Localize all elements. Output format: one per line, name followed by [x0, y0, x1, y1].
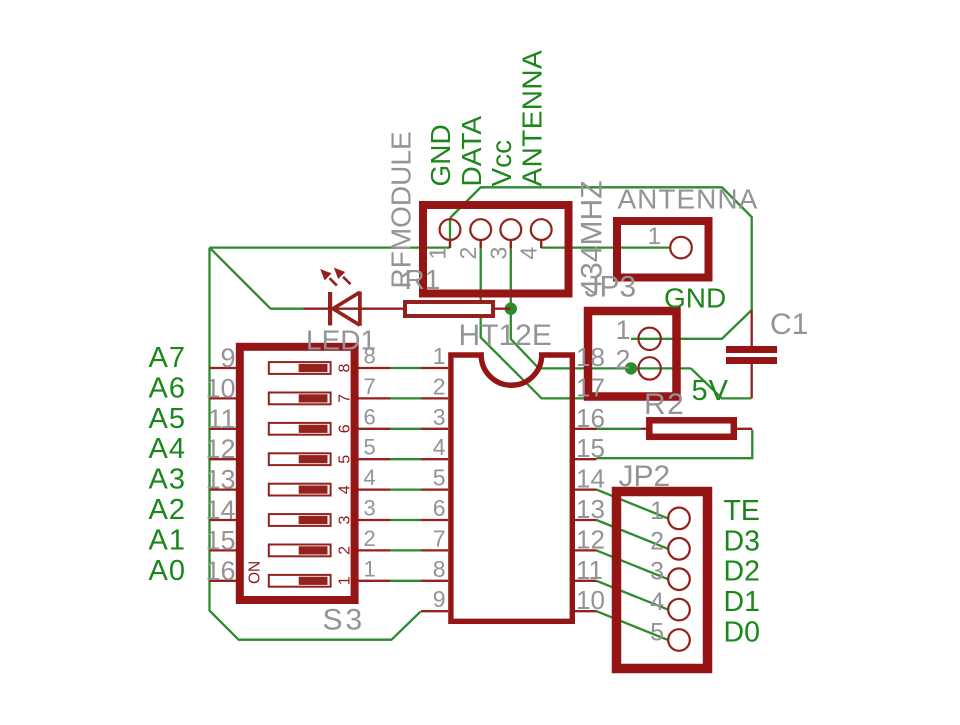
- JP2 pin 5 circle: [668, 629, 690, 651]
- S3 left pin stub row 14: [210, 519, 237, 521]
- svg-text:15: 15: [205, 525, 235, 555]
- S3 right pin stub row 5: [358, 458, 390, 460]
- svg-text:10: 10: [205, 373, 235, 403]
- svg-text:10: 10: [576, 585, 605, 615]
- svg-text:D1: D1: [724, 586, 760, 618]
- wire IC pin14 to JP2 pin1: [597, 490, 669, 519]
- JP3 pin 2 circle: [638, 357, 660, 379]
- svg-text:1: 1: [337, 576, 354, 585]
- S3 left pin stub row 10: [210, 397, 237, 399]
- RFMODULE pin 3 circle: [500, 219, 521, 240]
- wire IC pin15 to R2 right: [597, 430, 753, 458]
- svg-text:HT12E: HT12E: [459, 319, 552, 352]
- S3 slot 2: [269, 545, 331, 557]
- svg-text:13: 13: [205, 465, 235, 495]
- IC right pin stub 16: [573, 428, 597, 430]
- wire 5V jog to C1 bottom: [691, 368, 752, 398]
- ANTENNA pin 1 circle: [670, 237, 692, 259]
- IC right pin stub 15: [573, 458, 597, 460]
- svg-text:1: 1: [433, 343, 446, 369]
- svg-text:1: 1: [364, 556, 376, 581]
- svg-text:9: 9: [220, 343, 235, 373]
- svg-text:8: 8: [364, 344, 376, 369]
- svg-text:A2: A2: [149, 494, 186, 526]
- wire Vcc: RFMODULE pin3 to JP3 pin2: [511, 242, 691, 368]
- svg-text:12: 12: [205, 434, 235, 464]
- IC left pin stub 8: [421, 580, 448, 582]
- svg-text:3: 3: [650, 558, 664, 586]
- RFMODULE pin 3 stub: [510, 241, 512, 249]
- svg-text:5: 5: [433, 465, 446, 491]
- svg-text:1: 1: [650, 497, 664, 525]
- svg-text:2: 2: [433, 373, 446, 399]
- R1 right lead: [493, 308, 511, 310]
- svg-text:16: 16: [576, 403, 605, 433]
- connector ANTENNA box: [617, 221, 709, 278]
- wire GND top run to C1/JP3: [450, 187, 752, 310]
- RFMODULE pin 1 circle: [440, 219, 461, 240]
- svg-text:15: 15: [576, 433, 605, 463]
- wire GND bus left outline: [210, 248, 421, 640]
- RFMODULE pin 2 stub: [480, 241, 482, 249]
- svg-text:2: 2: [364, 526, 376, 551]
- wire S3 pin 8 to IC pin 1: [390, 367, 422, 369]
- RFMODULE pin 1 stub: [449, 241, 451, 249]
- IC left pin stub 6: [421, 519, 448, 521]
- wire DATA: RFMODULE pin2 to IC pin17: [481, 242, 597, 398]
- svg-text:17: 17: [576, 372, 605, 402]
- svg-text:ON: ON: [247, 561, 264, 584]
- IC left pin stub 9: [421, 610, 448, 612]
- S3 slot 4: [269, 484, 331, 496]
- svg-text:TE: TE: [724, 495, 760, 527]
- LED1 arrow 1: [330, 278, 337, 285]
- svg-text:A5: A5: [149, 403, 186, 435]
- S3 slot 7: [269, 393, 331, 405]
- svg-text:4: 4: [337, 485, 354, 494]
- svg-text:4: 4: [364, 465, 376, 490]
- IC right pin stub 14: [573, 488, 597, 490]
- svg-text:3: 3: [364, 496, 376, 521]
- svg-text:JP2: JP2: [619, 460, 671, 493]
- LED1 arrow 2: [343, 277, 350, 284]
- LED1 triangle: [333, 292, 360, 326]
- IC left pin stub 1: [421, 367, 448, 369]
- switch S3 body: [240, 347, 355, 600]
- connector JP2 box: [617, 492, 708, 669]
- R2 left lead: [641, 428, 649, 430]
- svg-text:14: 14: [205, 495, 235, 525]
- wire IC pin11 to JP2 pin4: [597, 581, 669, 610]
- svg-text:GND: GND: [664, 283, 726, 314]
- svg-text:JP3: JP3: [585, 271, 637, 304]
- svg-text:4: 4: [650, 588, 664, 616]
- svg-text:6: 6: [364, 404, 376, 429]
- S3 right pin stub row 4: [358, 488, 390, 490]
- IC right pin stub 11: [573, 580, 597, 582]
- S3 right pin stub row 3: [358, 519, 390, 521]
- IC left pin stub 4: [421, 458, 448, 460]
- svg-text:S3: S3: [323, 604, 366, 637]
- svg-text:R1: R1: [405, 264, 441, 295]
- svg-text:Vcc: Vcc: [486, 140, 517, 187]
- RFMODULE pin 4 circle: [531, 219, 552, 240]
- wire S3 pin 7 to IC pin 2: [390, 397, 422, 399]
- svg-text:D0: D0: [724, 617, 760, 649]
- svg-text:DATA: DATA: [456, 116, 487, 187]
- op IC HT12E outline: [451, 355, 572, 621]
- svg-text:2: 2: [650, 527, 664, 555]
- svg-text:3: 3: [337, 516, 354, 525]
- S3 left pin stub row 16: [210, 580, 237, 582]
- JP2 pin 4 circle: [668, 599, 690, 621]
- resistor R1 body: [405, 302, 493, 316]
- IC right pin stub 13: [573, 519, 597, 521]
- svg-text:2: 2: [455, 247, 481, 260]
- svg-text:13: 13: [576, 494, 605, 524]
- svg-text:A7: A7: [149, 342, 186, 374]
- svg-text:3: 3: [485, 247, 511, 260]
- S3 left pin stub row 13: [210, 488, 237, 490]
- S3 right pin stub row 2: [358, 549, 390, 551]
- svg-text:A4: A4: [149, 433, 186, 465]
- LED1 cathode bar: [328, 292, 332, 325]
- wire JP3 pin1 to GND node: [631, 310, 752, 339]
- wire IC pin12 to JP2 pin3: [597, 550, 669, 579]
- IC left pin stub 7: [421, 549, 448, 551]
- svg-text:5: 5: [337, 455, 354, 464]
- svg-text:R2: R2: [644, 388, 685, 421]
- svg-text:A0: A0: [149, 555, 186, 587]
- IC left pin stub 5: [421, 488, 448, 490]
- RFMODULE pin 2 circle: [470, 219, 491, 240]
- junction dot Vcc/R1: [505, 303, 517, 315]
- svg-text:4: 4: [516, 247, 542, 260]
- S3 right pin stub row 7: [358, 397, 390, 399]
- S3 right pin stub row 1: [358, 580, 390, 582]
- svg-text:14: 14: [576, 464, 605, 494]
- svg-text:11: 11: [576, 555, 603, 585]
- R1 left lead through LED anode: [304, 308, 406, 310]
- svg-text:7: 7: [337, 394, 354, 403]
- wire S3 pin 6 to IC pin 3: [390, 428, 422, 430]
- IC left pin stub 2: [421, 397, 448, 399]
- svg-text:A3: A3: [149, 464, 186, 496]
- IC right pin stub 12: [573, 549, 597, 551]
- svg-text:A6: A6: [149, 372, 186, 404]
- svg-text:2: 2: [615, 345, 630, 375]
- wire RFMODULE pin1 stub: [449, 218, 451, 248]
- S3 left pin stub row 12: [210, 458, 237, 460]
- S3 slot 6: [269, 423, 331, 435]
- svg-text:16: 16: [205, 556, 235, 586]
- wire GND horizontal to RFMODULE pin1: [210, 246, 451, 248]
- svg-text:18: 18: [576, 342, 605, 372]
- svg-text:2: 2: [337, 546, 354, 555]
- S3 slot 3: [269, 514, 331, 526]
- R2 right lead: [734, 428, 752, 430]
- S3 slot 8: [269, 362, 331, 374]
- svg-text:1: 1: [425, 247, 451, 260]
- svg-text:ANTENNA: ANTENNA: [618, 184, 759, 215]
- S3 left pin stub row 11: [210, 428, 237, 430]
- connector JP3 box: [588, 311, 677, 397]
- svg-text:5V: 5V: [692, 375, 729, 407]
- svg-text:8: 8: [337, 364, 354, 373]
- svg-text:12: 12: [576, 524, 605, 554]
- svg-text:4: 4: [433, 434, 446, 460]
- connector RFMODULE box: [423, 205, 569, 294]
- JP3 pin 1 circle: [638, 328, 660, 350]
- S3 slot 5: [269, 453, 331, 465]
- wire S3 pin 1 to IC pin 8: [390, 580, 422, 582]
- svg-text:6: 6: [337, 424, 354, 433]
- JP2 pin 1 circle: [668, 508, 690, 530]
- S3 right pin stub row 6: [358, 428, 390, 430]
- IC right pin stub 10: [573, 610, 597, 612]
- svg-text:ANTENNA: ANTENNA: [517, 50, 548, 187]
- svg-text:9: 9: [433, 586, 446, 612]
- wire S3 pin 2 to IC pin 7: [390, 549, 422, 551]
- svg-text:5: 5: [364, 435, 376, 460]
- wire IC pin10 to JP2 pin5: [597, 611, 669, 640]
- S3 left pin stub row 9: [210, 367, 237, 369]
- svg-text:6: 6: [433, 495, 446, 521]
- svg-text:C1: C1: [770, 308, 808, 341]
- svg-text:A1: A1: [149, 524, 186, 556]
- C1 bottom lead: [751, 363, 753, 398]
- wire RFMODULE pin4 to ANTENNA pin1: [541, 242, 670, 248]
- S3 slot 1: [269, 575, 331, 587]
- wire GND corner to LED cathode: [210, 248, 304, 309]
- S3 right pin stub row 8: [358, 367, 390, 369]
- svg-text:GND: GND: [425, 124, 456, 186]
- wire IC pin13 to JP2 pin2: [597, 520, 669, 549]
- wire IC pin16 to R2 left: [597, 428, 642, 430]
- RFMODULE pin 4 stub: [540, 241, 542, 249]
- svg-text:D3: D3: [724, 525, 760, 557]
- S3 left pin stub row 15: [210, 549, 237, 551]
- JP2 pin 3 circle: [668, 568, 690, 590]
- svg-text:3: 3: [433, 404, 446, 430]
- svg-text:7: 7: [364, 374, 376, 399]
- svg-text:1: 1: [648, 223, 661, 250]
- wire S3 pin 3 to IC pin 6: [390, 519, 422, 521]
- IC HT12E body: [451, 355, 572, 621]
- C1 top lead: [751, 310, 753, 347]
- resistor R2 body: [649, 420, 734, 437]
- svg-text:5: 5: [650, 619, 664, 647]
- JP2 pin 2 circle: [668, 538, 690, 560]
- junction dot JP3 pin2: [625, 362, 637, 374]
- svg-text:7: 7: [433, 525, 446, 551]
- svg-text:8: 8: [433, 556, 446, 582]
- capacitor C1 plates: [726, 346, 777, 353]
- wire S3 pin 4 to IC pin 5: [390, 488, 422, 490]
- svg-text:11: 11: [207, 404, 235, 434]
- svg-text:1: 1: [615, 315, 630, 345]
- wire S3 pin 5 to IC pin 4: [390, 458, 422, 460]
- svg-text:D2: D2: [724, 556, 760, 588]
- IC left pin stub 3: [421, 428, 448, 430]
